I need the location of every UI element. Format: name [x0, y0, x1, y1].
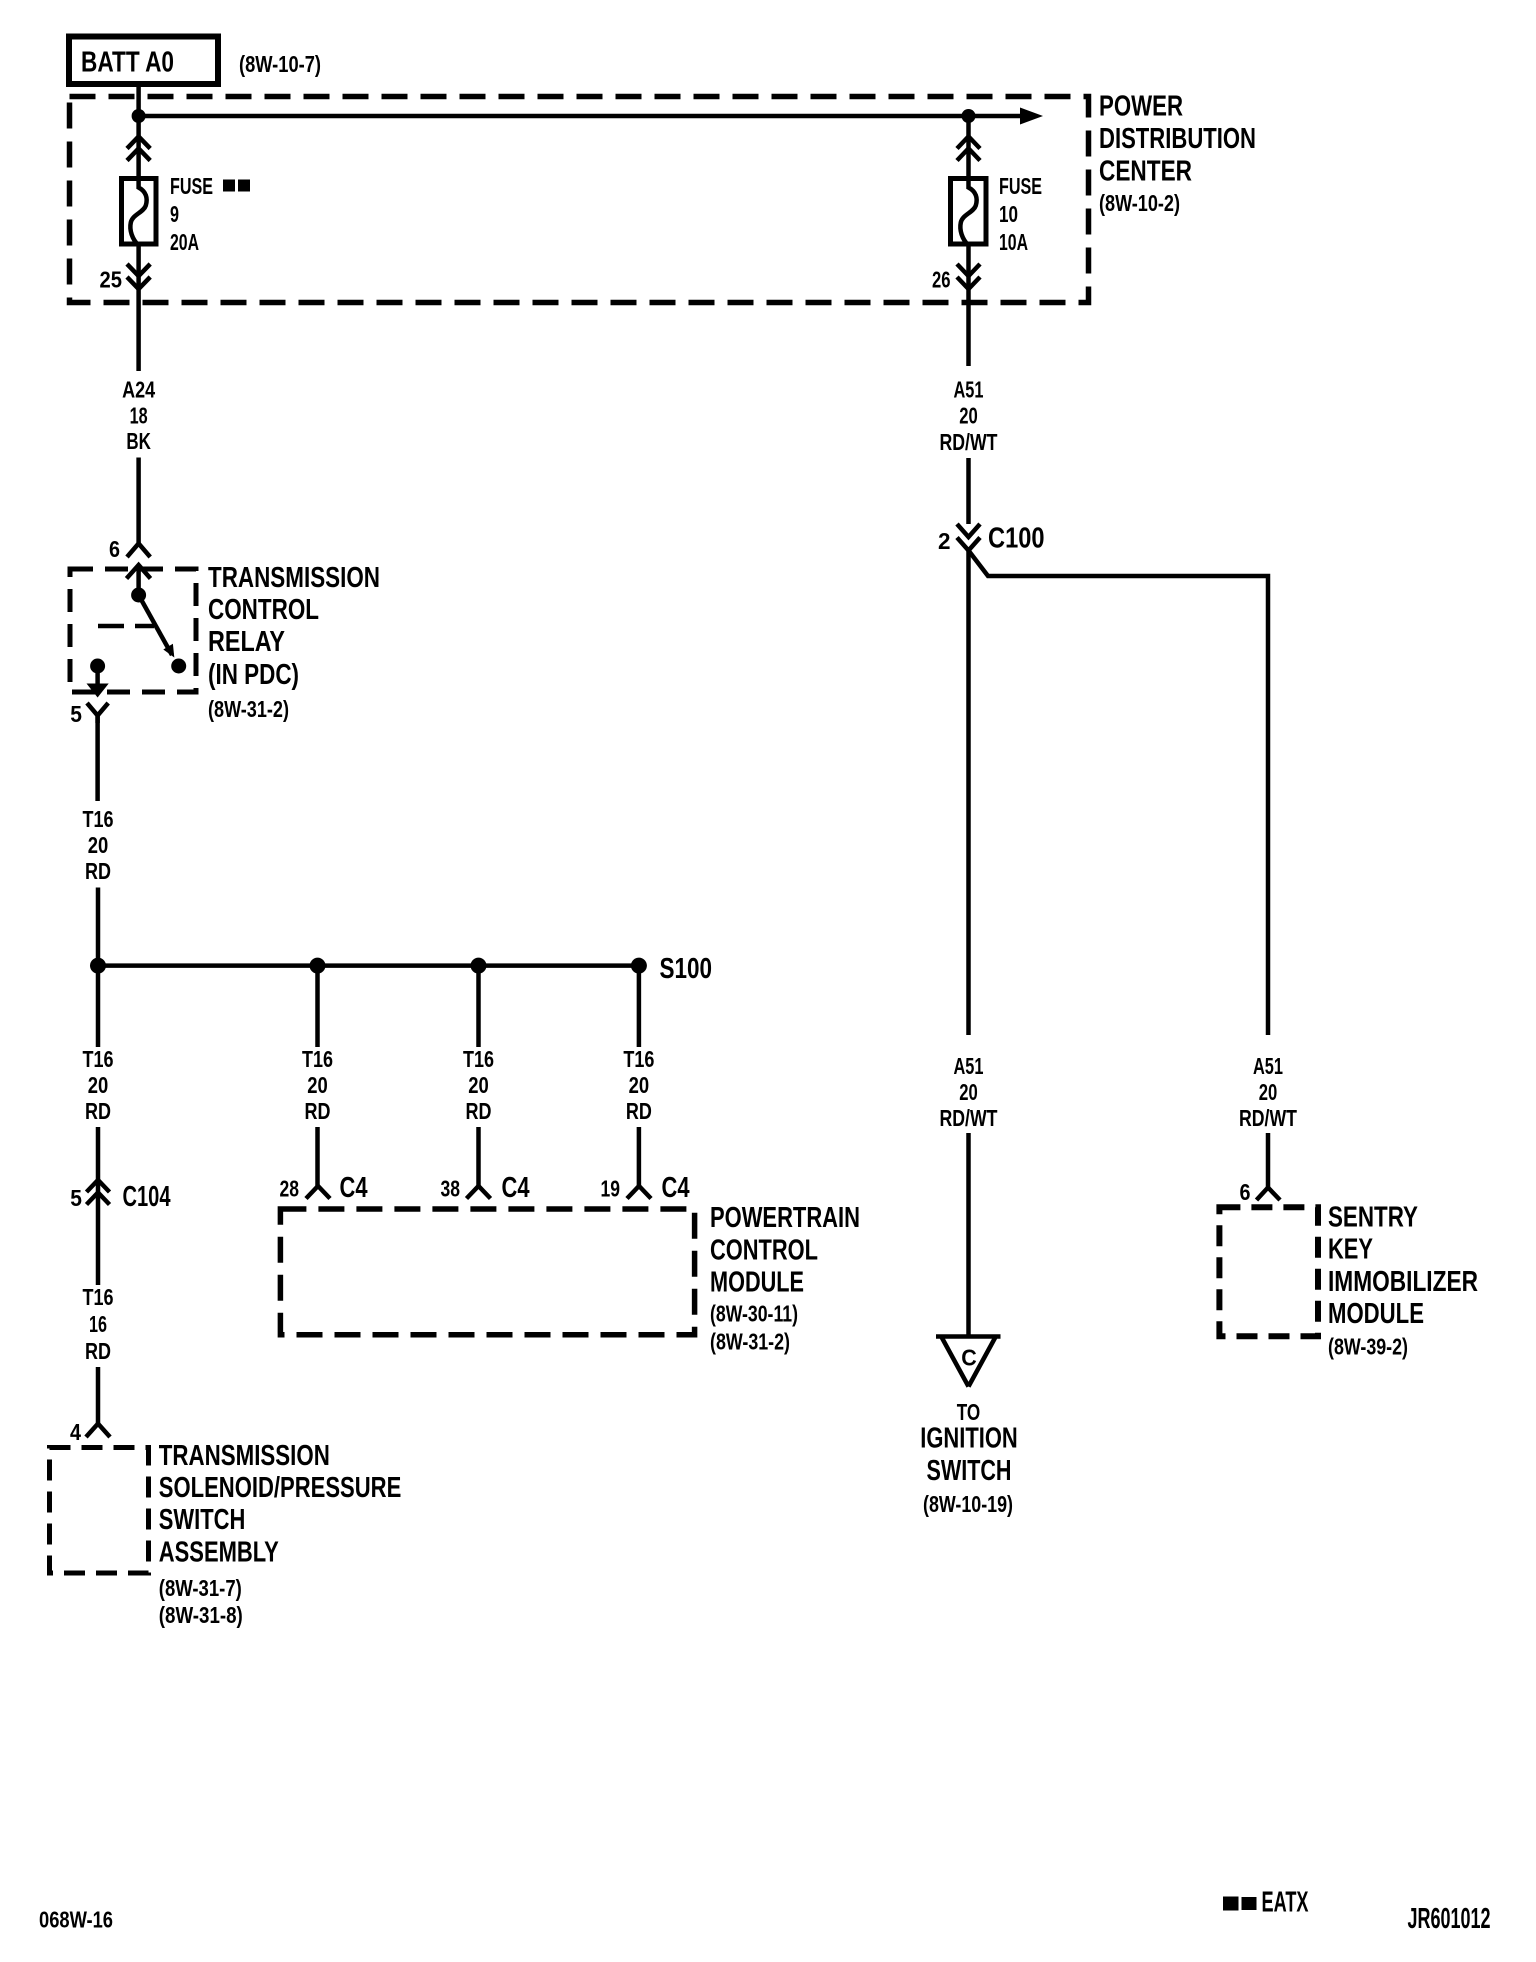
svg-text:20: 20 [88, 832, 109, 858]
fuse F9 [122, 176, 157, 247]
node BATT A0 [69, 37, 218, 85]
connector chevron pin 19 [627, 1186, 651, 1199]
svg-text:C104: C104 [123, 1181, 171, 1213]
svg-text:5: 5 [70, 1185, 82, 1211]
footer EATX legend [1223, 1887, 1309, 1919]
svg-text:20: 20 [629, 1072, 650, 1098]
label FUSE 10 10A [999, 173, 1042, 255]
svg-text:FUSE: FUSE [170, 173, 213, 199]
svg-text:6: 6 [109, 536, 120, 562]
Transmission Solenoid dashed box [50, 1448, 149, 1574]
svg-text:19: 19 [601, 1176, 621, 1202]
svg-text:C4: C4 [340, 1172, 368, 1204]
svg-text:(8W-31-7): (8W-31-7) [159, 1575, 242, 1601]
wire relay pin 5 down [95, 716, 100, 802]
wire label A51 20 RD/WT right [1239, 1053, 1297, 1131]
wire col3 to pin 38 [476, 1127, 481, 1186]
svg-text:4: 4 [70, 1419, 81, 1445]
svg-text:POWERTRAIN: POWERTRAIN [710, 1202, 860, 1234]
Power Distribution Center dashed box [70, 97, 1089, 303]
svg-text:RD: RD [85, 1098, 111, 1124]
svg-text:20: 20 [1259, 1079, 1278, 1105]
svg-text:(8W-30-11): (8W-30-11) [710, 1301, 798, 1327]
wire label T16 20 RD col4 [623, 1046, 654, 1124]
svg-text:TRANSMISSION: TRANSMISSION [208, 562, 380, 594]
wire branch to sentry key module [969, 551, 1269, 1036]
svg-text:C4: C4 [662, 1172, 690, 1204]
svg-text:(8W-31-2): (8W-31-2) [208, 696, 289, 722]
svg-text:38: 38 [441, 1176, 461, 1202]
svg-text:068W-16: 068W-16 [39, 1907, 113, 1933]
svg-text:POWER: POWER [1099, 91, 1183, 123]
wire col1 to C104 [96, 1127, 101, 1285]
wire down to solenoid assembly [96, 1367, 101, 1424]
svg-text:JR601012: JR601012 [1408, 1903, 1491, 1935]
svg-text:IMMOBILIZER: IMMOBILIZER [1328, 1266, 1478, 1298]
connector C104 double chevron [87, 1180, 110, 1205]
svg-text:TO: TO [957, 1399, 981, 1425]
svg-text:IGNITION: IGNITION [920, 1423, 1018, 1455]
svg-text:EATX: EATX [1262, 1887, 1309, 1919]
svg-text:6: 6 [1240, 1179, 1251, 1205]
svg-text:RD/WT: RD/WT [1239, 1105, 1297, 1131]
svg-text:RD: RD [85, 1338, 111, 1364]
connector chevron pin 4 [86, 1424, 110, 1437]
wire drop column 3 [476, 966, 481, 1047]
label TRANSMISSION CONTROL RELAY [208, 562, 380, 722]
svg-text:BATT A0: BATT A0 [81, 47, 174, 79]
fuse F10 [951, 176, 987, 247]
svg-text:C: C [961, 1345, 977, 1371]
svg-text:(8W-10-2): (8W-10-2) [1099, 190, 1180, 216]
connector Y pin 5 [87, 703, 108, 723]
svg-text:CONTROL: CONTROL [710, 1234, 818, 1266]
label FUSE 9 20A [170, 173, 250, 255]
wire label T16 16 RD [83, 1284, 114, 1364]
wire junction to fuse 10 [966, 116, 971, 176]
wire down to ignition triangle [966, 1133, 971, 1337]
svg-text:10A: 10A [999, 229, 1028, 255]
svg-text:(8W-10-19): (8W-10-19) [923, 1491, 1013, 1517]
svg-text:C100: C100 [988, 523, 1045, 555]
label TO IGNITION SWITCH [920, 1399, 1018, 1517]
connector C100 double chevron [957, 524, 980, 551]
svg-text:T16: T16 [302, 1046, 333, 1072]
node junction dot left [132, 109, 146, 123]
label SENTRY KEY IMMOBILIZER MODULE [1328, 1202, 1478, 1360]
wire fuse 10 down out of PDC [966, 247, 971, 367]
wire A24 down to relay [136, 458, 141, 544]
svg-text:CONTROL: CONTROL [208, 594, 319, 626]
splice dot 3 [471, 958, 487, 974]
splice dot 2 [310, 958, 326, 974]
svg-text:(8W-31-8): (8W-31-8) [159, 1602, 243, 1628]
svg-text:SENTRY: SENTRY [1328, 1202, 1418, 1234]
connector chevron inside relay [127, 565, 151, 588]
wire label T16 20 RD col2 [302, 1046, 333, 1124]
svg-text:T16: T16 [83, 1046, 114, 1072]
wire label A24 18 BK [122, 377, 155, 455]
wire down to sentry module [1266, 1133, 1271, 1188]
wire down to C100 [966, 458, 971, 524]
svg-text:ASSEMBLY: ASSEMBLY [159, 1537, 279, 1569]
connector chevron pin 28 [306, 1186, 330, 1199]
svg-text:RD: RD [626, 1098, 652, 1124]
svg-text:20: 20 [959, 1079, 978, 1105]
svg-text:RD/WT: RD/WT [940, 1105, 998, 1131]
wire down to splice [96, 888, 101, 966]
connector chevron sentry pin 6 [1257, 1188, 1281, 1201]
label POWERTRAIN CONTROL MODULE [710, 1202, 860, 1355]
svg-text:RD: RD [466, 1098, 492, 1124]
svg-text:18: 18 [130, 403, 148, 429]
svg-text:A51: A51 [954, 377, 984, 403]
wire fuse 9 down out of PDC [136, 247, 141, 372]
svg-text:20: 20 [468, 1072, 489, 1098]
svg-text:(8W-39-2): (8W-39-2) [1328, 1334, 1408, 1360]
node junction dot right [962, 109, 976, 123]
svg-text:(8W-31-2): (8W-31-2) [710, 1329, 790, 1355]
svg-text:5: 5 [70, 701, 82, 727]
svg-text:9: 9 [170, 201, 179, 227]
splice dot 4 [631, 958, 647, 974]
svg-text:T16: T16 [463, 1046, 494, 1072]
wire top horizontal bus with arrow [139, 114, 1021, 119]
svg-text:MODULE: MODULE [1328, 1298, 1424, 1330]
svg-text:BK: BK [126, 428, 151, 454]
svg-text:T16: T16 [83, 806, 114, 832]
wire label T16 20 RD col3 [463, 1046, 494, 1124]
Powertrain Control Module dashed box [280, 1209, 694, 1335]
relay contact dot lower left [90, 659, 105, 674]
svg-text:10: 10 [999, 201, 1018, 227]
connector double chevron above fuse 9 [127, 137, 150, 161]
label POWER DISTRIBUTION CENTER [1099, 91, 1256, 217]
svg-text:T16: T16 [623, 1046, 654, 1072]
svg-text:2: 2 [938, 528, 951, 554]
wire label T16 20 RD col1 [83, 1046, 114, 1124]
connector double chevron above fuse 10 [957, 137, 980, 161]
wire drop column 2 [315, 966, 320, 1047]
wire col4 to pin 19 [637, 1127, 642, 1186]
svg-text:20: 20 [307, 1072, 328, 1098]
relay switch arm with arrow [139, 595, 175, 658]
svg-text:20: 20 [959, 403, 978, 429]
svg-text:(IN PDC): (IN PDC) [208, 659, 299, 691]
svg-text:25: 25 [100, 267, 123, 293]
svg-text:RD: RD [85, 858, 111, 884]
svg-text:DISTRIBUTION: DISTRIBUTION [1099, 123, 1256, 155]
label TRANSMISSION SOLENOID/PRESSURE SWITCH ASSEMBLY [159, 1440, 401, 1628]
wire drop column 1 [96, 966, 101, 1047]
connector double chevron pin 26 [957, 264, 980, 289]
svg-text:20A: 20A [170, 229, 199, 255]
svg-text:FUSE: FUSE [999, 173, 1042, 199]
wire main down from C100 [966, 551, 971, 1036]
svg-text:SWITCH: SWITCH [927, 1455, 1012, 1487]
svg-text:TRANSMISSION: TRANSMISSION [159, 1440, 330, 1472]
svg-text:MODULE: MODULE [710, 1267, 804, 1299]
connector chevron pin 38 [467, 1186, 491, 1199]
wire label A51 20 RD/WT top [940, 377, 998, 456]
svg-text:20: 20 [88, 1072, 109, 1098]
relay output arrow down [87, 666, 109, 698]
svg-text:RD: RD [305, 1098, 331, 1124]
svg-text:S100: S100 [660, 953, 713, 985]
svg-text:A51: A51 [954, 1053, 984, 1079]
svg-text:CENTER: CENTER [1099, 156, 1192, 188]
svg-text:SWITCH: SWITCH [159, 1504, 246, 1536]
wire drop column 4 [637, 966, 642, 1047]
svg-text:A51: A51 [1253, 1053, 1283, 1079]
relay movable contact dot [131, 588, 146, 603]
splice S100 bus [98, 963, 639, 968]
wire label A51 20 RD/WT left [940, 1053, 998, 1131]
svg-text:T16: T16 [83, 1284, 114, 1310]
wire label T16 20 RD [83, 806, 114, 884]
Sentry Key Immobilizer Module dashed box [1219, 1207, 1318, 1336]
svg-text:KEY: KEY [1328, 1234, 1373, 1266]
relay internal divider [98, 624, 154, 629]
svg-text:C4: C4 [502, 1172, 530, 1204]
wire col2 to pin 28 [315, 1127, 320, 1186]
svg-text:(8W-10-7): (8W-10-7) [239, 51, 321, 77]
svg-text:RELAY: RELAY [208, 626, 285, 658]
relay contact dot lower right [171, 659, 186, 674]
connector chevron pin 6 [127, 544, 150, 558]
svg-text:28: 28 [280, 1176, 300, 1202]
wire BATT A0 down to junction [136, 87, 141, 176]
svg-text:26: 26 [932, 267, 951, 293]
connector double chevron pin 25 [127, 264, 150, 289]
svg-text:A24: A24 [122, 377, 155, 403]
relay K1 Transmission Control Relay dashed box [70, 569, 196, 692]
svg-text:SOLENOID/PRESSURE: SOLENOID/PRESSURE [159, 1472, 401, 1504]
splice dot 1 [90, 958, 106, 974]
off-page connector C triangle [936, 1337, 1001, 1387]
svg-text:16: 16 [89, 1311, 107, 1337]
svg-text:RD/WT: RD/WT [940, 429, 998, 455]
